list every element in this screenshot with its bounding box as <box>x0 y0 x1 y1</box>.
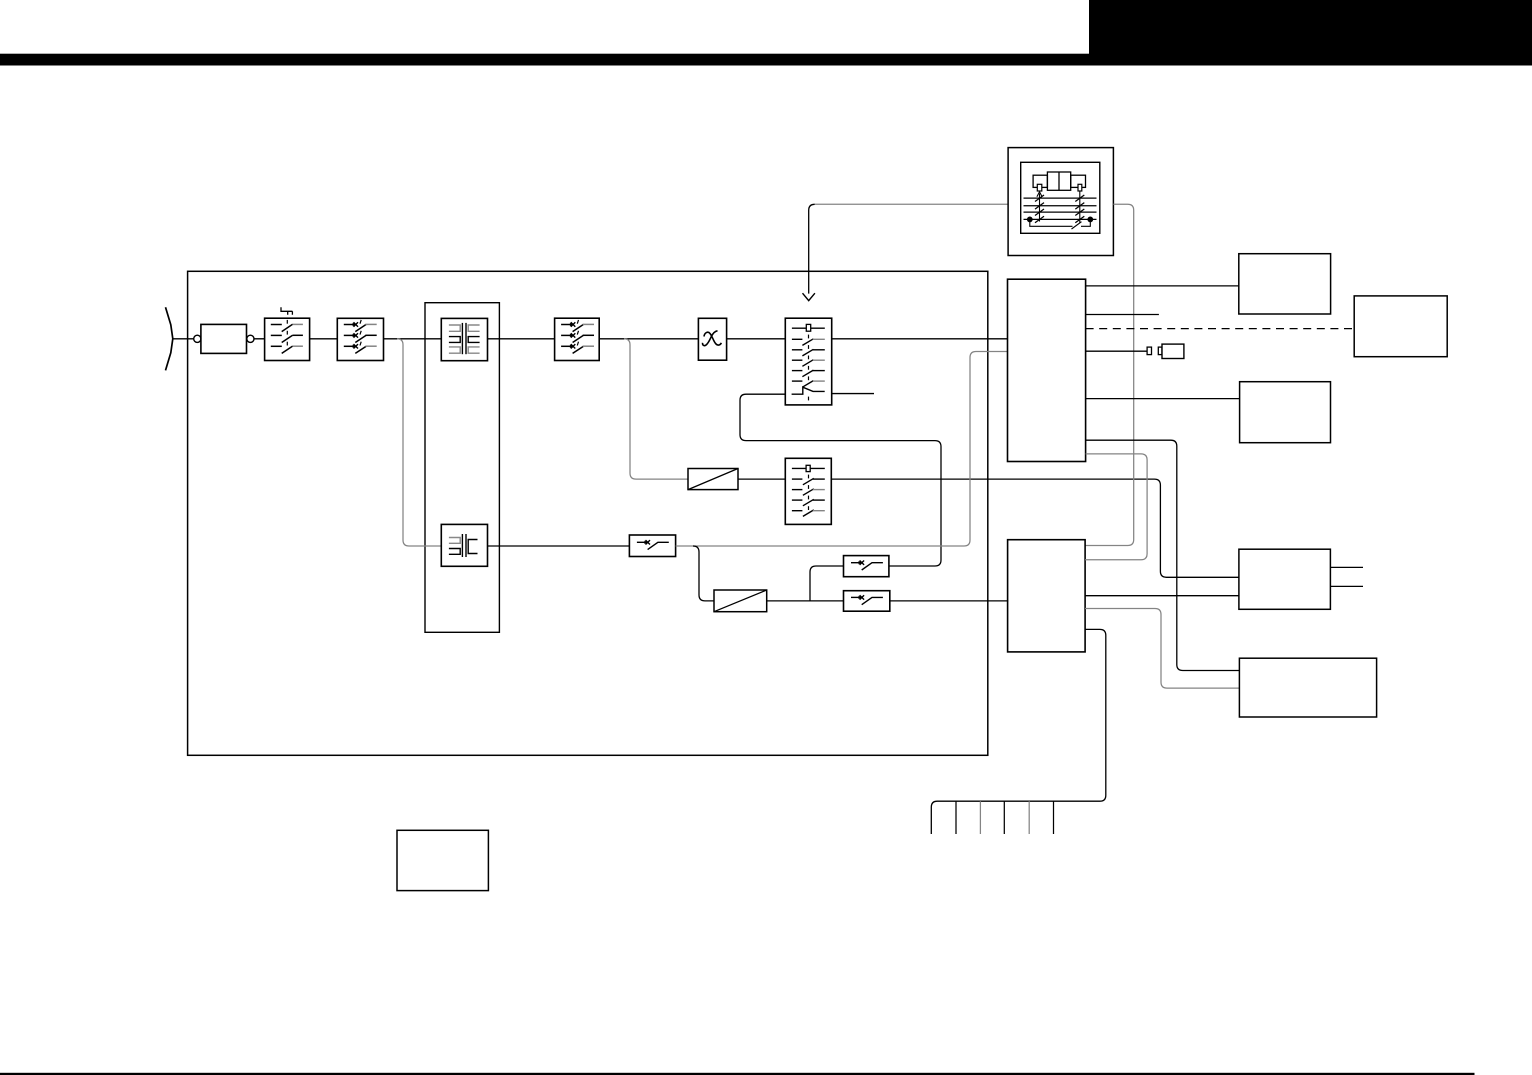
fuse-switch S3 <box>555 318 600 360</box>
inset busbar cubicle rects <box>1047 172 1070 190</box>
wire K1 to K2 <box>1085 454 1147 560</box>
wire S2 to transformer T1 <box>384 338 442 340</box>
dashed wire K1 to box E2 <box>1086 328 1355 330</box>
header black bar <box>0 54 1532 66</box>
contactor C1 <box>844 556 889 577</box>
wire S1 to S2 <box>310 338 338 340</box>
stub K1 right <box>1086 314 1159 316</box>
generator G <box>201 324 247 353</box>
wire D2 to contactor C2 <box>767 600 844 602</box>
inset feeder left with up arrow <box>1039 194 1041 222</box>
converter D2 <box>714 590 767 612</box>
rotor shaft wire <box>173 338 194 340</box>
wire S3 to kWh meter <box>599 338 698 340</box>
bottom page rule <box>0 1073 1475 1075</box>
sensor comb drops <box>956 801 1054 834</box>
inset feeder right <box>1079 191 1081 223</box>
wire T2 to aux fuse-switch A1 <box>488 545 630 547</box>
wire K1 to box E1 <box>1086 285 1239 287</box>
auxiliary transformer T2 <box>441 524 487 566</box>
inset earth link <box>1030 221 1073 226</box>
box E2 <box>1354 296 1447 357</box>
wire ring-main detail to breaker (down arrow) <box>815 203 1008 205</box>
service plug socket <box>1147 347 1151 355</box>
inset bus lines <box>1024 198 1097 219</box>
wire T1 to fuse-switch S3 <box>488 338 555 340</box>
wire inset to distribution box K2 <box>1085 204 1134 545</box>
arrowhead down <box>803 293 815 300</box>
kWh meter M1 <box>698 318 726 360</box>
main transformer T1 <box>441 318 487 360</box>
wire D1 to switch S4 <box>738 478 785 480</box>
comms box E4 <box>1239 549 1331 609</box>
wire K1 to box E5 <box>1086 440 1240 670</box>
header black title block top right <box>1089 0 1532 66</box>
wire K2 to sensor comb <box>931 629 1106 834</box>
wire C1 left drop to aux feed <box>810 566 844 601</box>
switch S1 (generator disconnect) <box>265 307 310 360</box>
main breaker B1 <box>785 318 831 405</box>
aux down-branch to converter D2 <box>693 546 714 601</box>
controller cabinet K1 <box>1008 279 1086 461</box>
stub B1 bottom right <box>832 393 874 395</box>
fuse-switch S2 <box>337 318 383 360</box>
service plug connector <box>1158 344 1184 358</box>
wind turbine rotor <box>166 307 173 370</box>
stub E4 right lower <box>1330 585 1363 587</box>
fused switch block S4 <box>785 458 831 524</box>
converter D1 <box>688 469 738 490</box>
generator terminal circle left <box>194 335 201 342</box>
aux branch from main line <box>397 339 441 546</box>
box E5 <box>1239 658 1376 717</box>
inset earth nodes <box>1027 217 1033 223</box>
inset switch blades left <box>1035 195 1044 223</box>
box E3 <box>1240 382 1331 443</box>
ring-main unit detail inset <box>1008 148 1113 256</box>
generator terminal circle right <box>247 335 254 342</box>
wire generator to switch S1 <box>254 338 265 340</box>
distribution cabinet K2 <box>1008 540 1086 652</box>
wire meter to breaker B1 <box>727 338 786 340</box>
wire K2 to box E5 <box>1085 609 1239 689</box>
inset terminal left <box>1037 184 1042 191</box>
inset terminal right <box>1078 184 1082 191</box>
wire A1 to controller K1 via riser <box>676 352 1008 547</box>
box E1 <box>1239 254 1331 314</box>
aux fuse-switch A1 <box>629 535 675 557</box>
contactor C2 <box>844 591 890 612</box>
wire B1 bottom loop to contactor C1 <box>740 394 941 566</box>
wire K2 to comms box E4 <box>1085 595 1239 597</box>
wire S4 to comms box E4 <box>831 479 1239 577</box>
wire B1 to controller K1 <box>832 338 1008 340</box>
transformer cabinet <box>425 303 499 633</box>
stub E4 right upper <box>1330 566 1363 568</box>
wire C2 to distribution box K2 <box>890 600 1008 602</box>
wire K1 to box E3 <box>1086 398 1240 400</box>
wire down-branch to converter D1 <box>624 339 688 479</box>
wire K1 to service plug <box>1086 350 1148 352</box>
legend box (isolated) <box>397 830 488 890</box>
inset switch blades right <box>1075 195 1084 223</box>
nacelle enclosure frame <box>188 271 988 755</box>
